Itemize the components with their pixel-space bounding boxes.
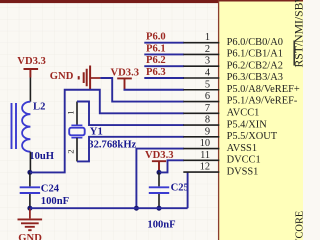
svg-text:8: 8 [205,115,210,126]
IC U1 body (yellow part box) [219,0,309,240]
pin 4 line [183,77,219,79]
pin 12 line [183,171,219,173]
pin 1 line [183,42,219,44]
svg-text:DVCC1: DVCC1 [227,155,261,166]
inductor L2 pin 1 wire [29,78,31,102]
pin 8 line [183,124,219,126]
svg-text:P6.0/CB0/A0: P6.0/CB0/A0 [227,37,283,48]
crystal Y1 pin 1 line [76,102,78,126]
svg-text:100nF: 100nF [41,196,69,207]
pin 6 line [183,101,219,103]
wire net P6.0 to pin 1 [144,42,184,44]
svg-text:9: 9 [205,126,210,137]
svg-text:C24: C24 [41,183,60,194]
svg-text:VD3.3: VD3.3 [111,68,140,79]
inductor L2 coil [22,102,30,152]
junction C24/GND rail [27,206,32,211]
sheet top border over part box [219,0,303,2]
capacitor C25 pin lines [158,172,160,208]
svg-text:P5.5/XOUT: P5.5/XOUT [227,131,278,142]
wire crystal pin1 to pin 8 (XIN) [77,102,184,126]
power symbol VD3.3 bar (top-left) [24,69,39,78]
svg-text:P6.1: P6.1 [146,43,166,54]
ground symbol (sideways) stem [90,77,100,79]
svg-text:VD3.3: VD3.3 [17,56,46,67]
junction L2/C24/AVCC [27,170,32,175]
pin 9 line [183,136,219,138]
pin 5 line [183,89,219,91]
svg-text:P5.1/A9/VeREF-: P5.1/A9/VeREF- [227,96,298,107]
power symbol VD3.3 bar (VeREF+) [117,78,132,89]
power symbol VD3.3 bar (DVCC) [152,161,166,172]
svg-text:P6.1/CB1/A1: P6.1/CB1/A1 [227,49,283,60]
svg-text:P6.3/CB3/A3: P6.3/CB3/A3 [227,72,283,83]
svg-text:1: 1 [66,110,76,114]
svg-text:2: 2 [66,149,76,153]
wire net P6.2 to pin 3 [144,65,184,67]
capacitor C25 plates [149,187,169,193]
wire net P6.1 to pin 2 [144,53,184,55]
wire GND to pin 6 (VeREF-) [100,78,184,102]
ground rail wire [30,207,188,209]
svg-text:100nF: 100nF [147,219,175,230]
junction VD3.3/C25/DVCC [157,170,162,175]
svg-text:AVSS1: AVSS1 [227,143,257,154]
ground symbol (bottom) stem [29,208,31,218]
svg-text:7: 7 [205,103,210,114]
pin 2 line [183,53,219,55]
junction C25/ground rail [157,206,162,211]
capacitor C24 pin lines [29,172,31,208]
sheet top border [0,0,303,3]
svg-text:P5.4/XIN: P5.4/XIN [227,119,268,130]
wire net P6.3 to pin 4 [144,77,184,79]
svg-text:1: 1 [205,32,210,43]
svg-text:P6.3: P6.3 [146,67,166,78]
RST active-low overline [293,41,295,66]
svg-text:P5.0/A8/VeREF+: P5.0/A8/VeREF+ [227,84,300,95]
ground symbol (bottom) bars [18,219,43,230]
svg-text:AVCC1: AVCC1 [227,107,260,118]
wire crystal pin2 to pin 9 (XOUT) [77,137,184,162]
wire AVCC: L2/C24 node to pin 7 [30,90,184,173]
svg-text:GND: GND [18,233,42,240]
wire pin 12 (DVSS1) to ground rail [187,172,189,208]
svg-text:VCORE: VCORE [295,211,304,240]
svg-text:11: 11 [200,150,210,161]
svg-text:2: 2 [205,44,210,55]
svg-text:3: 3 [205,56,210,67]
svg-text:DVSS1: DVSS1 [227,166,259,177]
svg-text:P6.0: P6.0 [146,32,166,43]
junction AVSS/ground rail [134,206,139,211]
svg-text:12: 12 [200,162,210,173]
crystal Y1 pin 2 line [76,138,78,162]
svg-text:GND: GND [50,71,74,82]
ground symbol (sideways) bars [79,66,90,90]
pin 3 line [183,65,219,67]
svg-text:C25: C25 [171,182,189,193]
svg-text:P6.2: P6.2 [146,55,166,66]
inductor L2 core bars [12,103,17,149]
pin 10 line [183,148,219,150]
svg-text:10: 10 [200,138,210,149]
inductor L2 pin 2 wire [29,152,31,173]
wire pin 10 (AVSS1) to ground rail [136,149,184,209]
crystal Y1 plates and body [71,125,82,137]
svg-text:5: 5 [205,79,210,90]
wire VD3.3 to pin 5 (VeREF+) [124,89,185,91]
pin 7 line [183,112,219,114]
svg-text:P6.2/CB2/A2: P6.2/CB2/A2 [227,60,283,71]
svg-text:4: 4 [205,67,211,78]
capacitor C24 plates [20,187,40,193]
svg-text:L2: L2 [33,102,45,113]
svg-text:6: 6 [205,91,210,102]
pin 11 line [183,159,219,161]
wire VD3.3 to pin 11 (DVCC1) [159,160,184,172]
svg-text:10uH: 10uH [29,151,54,162]
svg-text:32.768kHz: 32.768kHz [88,139,136,150]
